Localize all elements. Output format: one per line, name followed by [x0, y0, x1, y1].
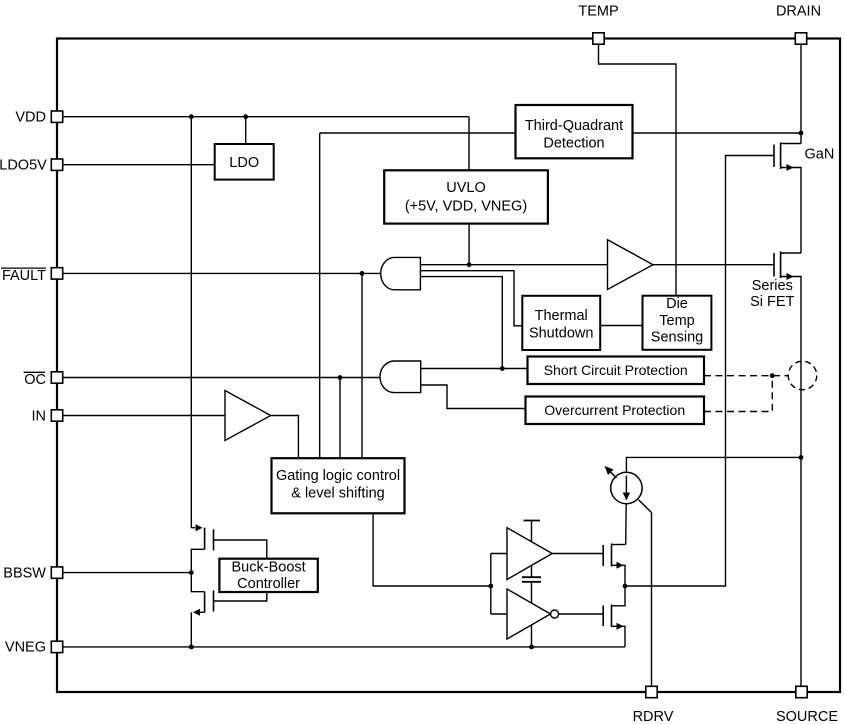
buffer B1 (Si FET gate buffer) — [608, 240, 654, 290]
wire TEMP pin to die temp sensing — [599, 45, 677, 296]
wire dashed short-circuit sense to source sense node — [704, 375, 788, 377]
block Short Circuit Protection — [528, 357, 705, 385]
wire FAULT line (pin to AND gate G1 output) — [63, 272, 381, 274]
wire G2 input 1 / short circuit protection line — [421, 368, 528, 370]
svg-text:VDD: VDD — [15, 110, 46, 126]
block UVLO — [384, 170, 548, 223]
wire push-pull output to GaN gate — [625, 156, 774, 587]
wire third-quadrant to drain node — [633, 132, 802, 134]
wire G1 input 2 to thermal shutdown — [420, 271, 522, 326]
wire IN buffer output to gating logic — [271, 416, 299, 459]
node short-circuit junction — [500, 366, 505, 371]
wire VDD rail (y=116.7 from VDD pin to UVLO drop) — [63, 117, 469, 171]
pin VDD — [15, 110, 62, 126]
svg-text:Series: Series — [752, 278, 793, 294]
svg-text:(+5V, VDD, VNEG): (+5V, VDD, VNEG) — [405, 199, 527, 215]
svg-text:Thermal: Thermal — [535, 308, 588, 324]
wire IN line (pin to buffer B2) — [63, 415, 225, 417]
transistor GaN FET — [774, 143, 801, 254]
wire OC junction down to gating logic — [339, 378, 341, 459]
node VDD-to-LDO junction — [243, 114, 248, 119]
wire VDD to LDO box — [245, 117, 247, 144]
block Third-Quadrant Detection — [516, 105, 633, 158]
node driver low rail to VNEG — [529, 645, 534, 650]
svg-text:BBSW: BBSW — [3, 565, 46, 581]
wire UVLO output stem — [468, 224, 470, 265]
wire B1 output to Si FET gate — [653, 264, 774, 266]
svg-text:Si FET: Si FET — [750, 294, 794, 310]
pin SOURCE — [776, 686, 838, 724]
node BBSW junction — [189, 570, 194, 575]
block Gating logic control & level shifting — [272, 458, 405, 513]
wire VNEG line — [63, 646, 625, 648]
pin DRAIN — [776, 4, 821, 45]
pin IN — [32, 408, 63, 424]
current source I1 (RDRV pulldown) — [605, 466, 643, 504]
inverter B4 (low-side gate driver) — [507, 589, 559, 639]
transistor Q2 (buck-boost lower FET) — [191, 573, 266, 647]
svg-text:Shutdown: Shutdown — [529, 326, 594, 342]
svg-text:Controller: Controller — [237, 576, 300, 592]
svg-text:FAULT: FAULT — [2, 268, 46, 284]
svg-text:Overcurrent Protection: Overcurrent Protection — [544, 402, 685, 418]
svg-text:Temp: Temp — [659, 313, 694, 329]
svg-text:Short Circuit Protection: Short Circuit Protection — [544, 362, 688, 378]
svg-text:UVLO: UVLO — [446, 180, 486, 196]
svg-text:LDO5V: LDO5V — [0, 158, 47, 174]
wire gating logic output to gate drivers — [373, 513, 491, 586]
wire B3 output to push-pull upper gate — [552, 553, 603, 555]
buffer B2 (IN input buffer) — [225, 391, 271, 441]
block Die Temp Sensing — [643, 296, 712, 350]
pin BBSW — [3, 565, 62, 581]
pin LDO5V — [0, 158, 63, 174]
svg-text:SOURCE: SOURCE — [776, 709, 838, 724]
block Thermal Shutdown — [522, 296, 600, 350]
wire VDD down-rail to buck-boost FET — [190, 117, 192, 528]
svg-text:GaN: GaN — [805, 147, 835, 163]
svg-text:Buck-Boost: Buck-Boost — [232, 559, 306, 575]
svg-text:RDRV: RDRV — [633, 709, 674, 724]
AND gate G1 (fault logic, points left) — [381, 257, 421, 289]
wire dashed overcurrent sense — [704, 376, 772, 412]
node drain junction — [799, 131, 804, 136]
node VDD-to-BB junction — [189, 114, 194, 119]
svg-text:LDO: LDO — [229, 155, 259, 171]
wire LDO5V (pin to LDO box) — [63, 164, 215, 166]
svg-text:IN: IN — [32, 408, 47, 424]
svg-text:& level shifting: & level shifting — [291, 486, 385, 502]
svg-text:TEMP: TEMP — [578, 4, 618, 20]
wire G1 input 3 to short-circuit line — [420, 277, 502, 369]
svg-text:VNEG: VNEG — [5, 640, 46, 656]
wire G2 input 2 to overcurrent protection — [421, 385, 526, 409]
wire BBSW line (pin to half-bridge) — [63, 572, 192, 574]
wire G1 input 1 / UVLO node to buffer B1 — [420, 264, 607, 266]
pin TEMP — [578, 4, 618, 45]
block LDO — [215, 144, 274, 180]
supply tap T-bar — [524, 520, 541, 522]
wire thermal shutdown to die temp sensing — [600, 325, 642, 327]
wire DRAIN pin to GaN drain — [800, 45, 802, 144]
svg-text:Gating logic control: Gating logic control — [276, 468, 400, 484]
transistor Q4 (push-pull lower FET) — [603, 586, 625, 647]
transistor Q3 (push-pull upper FET) — [603, 544, 625, 587]
svg-text:Die: Die — [666, 296, 688, 312]
svg-text:DRAIN: DRAIN — [776, 4, 821, 20]
svg-text:Detection: Detection — [543, 136, 604, 152]
wire current source bottom to upper FET drain — [625, 504, 628, 545]
pin VNEG — [5, 640, 63, 656]
svg-text:Sensing: Sensing — [651, 329, 703, 345]
pin OC (active low) — [24, 372, 63, 388]
svg-text:OC: OC — [24, 372, 46, 388]
node FAULT junction — [360, 271, 365, 276]
node UVLO-G1-buffer junction — [467, 262, 472, 267]
node source rail junction — [799, 455, 804, 460]
node push-pull output — [623, 584, 628, 589]
transistor Q1 (buck-boost upper FET) — [191, 524, 266, 572]
block Buck-Boost Controller — [219, 559, 317, 592]
wire driver input splits — [491, 554, 507, 615]
node VNEG-BB junction — [189, 645, 194, 650]
wire B4 output to push-pull lower gate — [559, 613, 604, 615]
capacitor C1 (bootstrap) — [522, 577, 541, 582]
AND gate G2 (overcurrent logic, points left) — [380, 361, 421, 393]
node dashed sense junction — [770, 373, 775, 378]
block Overcurrent Protection — [526, 397, 705, 425]
wire current source top to source rail — [626, 457, 801, 472]
node OC junction — [338, 375, 343, 380]
transistor Series Si FET — [774, 252, 801, 687]
label Series Si FET — [750, 278, 794, 310]
wire driver supply rail / bootstrap column — [531, 521, 533, 647]
pin RDRV — [633, 686, 674, 724]
buffer B3 (high-side gate driver) — [507, 528, 552, 580]
wire current source to RDRV pin — [639, 500, 652, 687]
wire OC line (pin to AND gate G2 output) — [63, 377, 380, 379]
current sense node (dashed circle on source line) — [788, 361, 817, 390]
node driver input junction — [488, 584, 493, 589]
pin FAULT (active low) — [1, 268, 63, 284]
wire third-quadrant line to gating logic — [320, 133, 516, 458]
svg-text:Third-Quadrant: Third-Quadrant — [525, 118, 623, 134]
wire FAULT junction down to gating logic — [361, 273, 363, 458]
